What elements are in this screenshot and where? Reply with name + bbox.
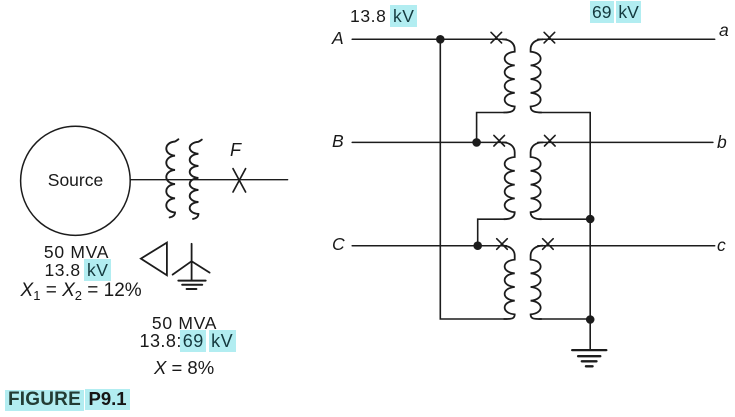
delta symbol <box>141 243 167 276</box>
transformer T one-line secondary winding <box>190 140 202 219</box>
label phase C <box>332 235 345 254</box>
delta wire: node A down and to T3 primary bottom <box>440 39 507 319</box>
label phase c <box>717 236 726 255</box>
ground symbol on neutral <box>572 350 606 366</box>
wire T1 secondary bottom to neutral <box>539 112 590 114</box>
junction dot node B <box>472 138 481 147</box>
ground under wye <box>178 281 205 289</box>
X mark T1 secondary <box>544 32 555 43</box>
label 50 MVA (transformer rating) <box>150 314 219 333</box>
junction dot node A <box>436 35 445 44</box>
junction dot T3 neutral <box>586 315 595 324</box>
transformer T2 primary winding <box>503 142 515 219</box>
figure caption <box>5 389 130 411</box>
phase c wire <box>538 245 715 247</box>
junction dot node C <box>473 241 482 250</box>
phase B wire <box>352 141 506 143</box>
label 13.8 kV (source voltage) <box>45 261 110 280</box>
phase C wire <box>352 245 506 247</box>
wire T3 secondary bottom to neutral <box>539 318 590 320</box>
X mark T1 primary <box>491 32 502 43</box>
wye symbol <box>173 244 210 280</box>
label X1 = X2 = 12% <box>21 281 142 303</box>
phase a wire <box>538 38 715 40</box>
wire T2 secondary bottom to neutral <box>539 218 590 220</box>
transformer T3 primary winding <box>503 246 515 319</box>
label F (fault) <box>230 141 241 161</box>
fault X mark <box>233 169 246 192</box>
X mark T2 secondary <box>545 135 556 146</box>
neutral wire <box>589 113 591 350</box>
phase b wire <box>538 141 713 143</box>
X mark T3 primary <box>497 239 508 250</box>
X mark T3 secondary <box>543 239 554 250</box>
wire T1 primary bottom to node B <box>477 113 504 143</box>
junction dot T2 neutral <box>586 215 595 224</box>
label Source <box>42 171 109 190</box>
transformer T2 secondary winding <box>531 142 543 219</box>
transformer T1 secondary winding <box>531 39 543 112</box>
phase A wire <box>352 38 506 40</box>
label phase A <box>332 29 344 48</box>
label phase b <box>717 133 727 152</box>
transformer T3 secondary winding <box>531 246 543 319</box>
label X = 8% <box>154 358 214 378</box>
wire T2 primary bottom to node C <box>478 219 504 246</box>
label 69 kV (secondary side) <box>591 3 640 22</box>
transformer T1 primary winding <box>503 39 515 112</box>
X mark T2 primary <box>494 135 505 146</box>
label 13.8:69 kV <box>140 332 235 352</box>
transformer T one-line primary winding <box>166 139 178 217</box>
label phase a <box>719 21 729 40</box>
label 50 MVA (source rating) <box>42 243 111 262</box>
label phase B <box>332 132 344 151</box>
wire source to fault point <box>130 179 287 181</box>
source S circle <box>21 126 131 235</box>
label 13.8 kV (primary side) <box>350 7 416 26</box>
